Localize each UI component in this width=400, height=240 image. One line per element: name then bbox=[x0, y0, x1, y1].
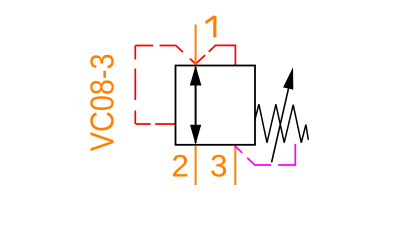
wire: port 1 line bbox=[195, 25, 197, 65]
svg-text:2: 2 bbox=[171, 147, 189, 183]
double-headed arrow shaft bbox=[195, 67, 197, 143]
port label 1 bbox=[206, 16, 215, 38]
wire: red dashed boundary right (junction to square top) bbox=[196, 45, 236, 65]
adjustment arrowhead bbox=[283, 67, 293, 89]
wire: red dashed segment, left vertical bbox=[134, 46, 136, 125]
wire: magenta pilot dashed line (port 3 to spring chamber) bbox=[235, 144, 295, 165]
arrowhead down bbox=[190, 125, 201, 145]
spring bbox=[255, 104, 308, 142]
svg-text:3: 3 bbox=[210, 147, 228, 183]
wire: red dashed segment, bottom horizontal into square left edge bbox=[135, 123, 175, 125]
wire: port 3 line bbox=[234, 146, 236, 185]
adjustment arrow shaft bbox=[272, 89, 289, 163]
wire: red dashed segment, top horizontal and diagonal to port-1 junction bbox=[135, 46, 195, 65]
valve body (square) bbox=[176, 66, 256, 145]
svg-text:VC08-3: VC08-3 bbox=[85, 54, 122, 152]
wire: port 2 line bbox=[195, 146, 197, 186]
arrowhead up bbox=[190, 66, 202, 86]
